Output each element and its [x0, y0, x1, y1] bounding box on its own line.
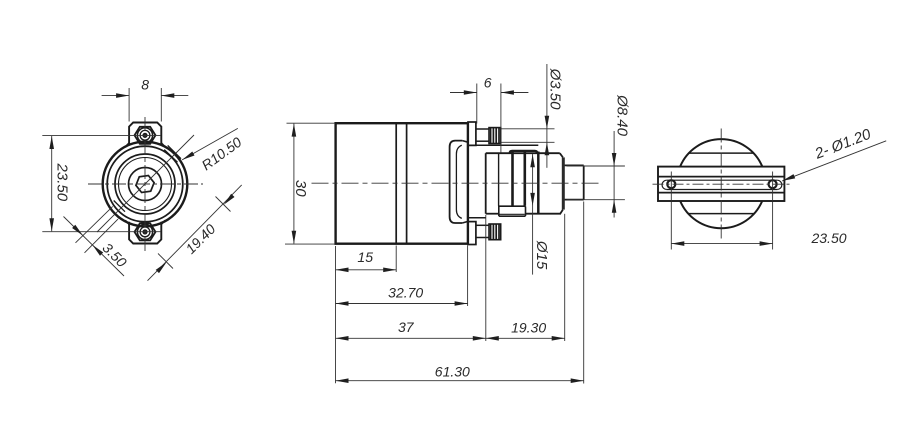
front view horizontal centerline [88, 183, 203, 185]
rear view housing circle (bottom arc) [680, 201, 762, 228]
svg-text:Ø8.40: Ø8.40 [614, 94, 631, 137]
svg-text:8: 8 [141, 76, 149, 92]
worm housing bottom edge [468, 217, 486, 219]
dimension Ø3.50 (terminal thread) [502, 64, 564, 168]
dimension 23.50 (hole spacing, front view) [42, 135, 161, 231]
svg-text:37: 37 [398, 319, 415, 335]
gearbox/end-cap boundary [537, 152, 540, 214]
rear view vertical centerline [720, 129, 722, 242]
bottom screw nut [135, 223, 156, 240]
rim flat marks upper-right [164, 145, 181, 162]
dimension 8 (tab width) [102, 76, 189, 121]
rear view top chord [689, 152, 754, 154]
rear view horizontal centerline [653, 183, 791, 185]
worm housing top edge [468, 144, 538, 146]
dimension 6 (terminal length) [450, 75, 528, 153]
dimension 30 (body height) [285, 123, 335, 244]
front view hub circle [129, 168, 162, 201]
motor body outline [336, 123, 468, 244]
output shaft [565, 165, 584, 199]
svg-text:19.30: 19.30 [511, 320, 546, 336]
svg-text:15: 15 [357, 249, 373, 265]
svg-text:32.70: 32.70 [388, 284, 423, 300]
gear channel and boss [499, 151, 537, 206]
svg-text:23.50: 23.50 [810, 230, 846, 246]
mounting slot [662, 180, 782, 189]
gearbox housing outline [486, 153, 561, 214]
end cap right edge [538, 153, 563, 214]
bottom mounting tab [125, 220, 165, 243]
top mounting tab [125, 123, 165, 147]
right screw hole [769, 172, 777, 201]
svg-text:Ø3.50: Ø3.50 [547, 68, 564, 111]
front view diagonal centerline [97, 135, 194, 232]
dimension Ø8.40 (shaft boss) [567, 94, 631, 217]
dimension 61.30 (overall length) [336, 202, 584, 384]
svg-text:Ø15: Ø15 [533, 240, 550, 270]
mounting bar inner edges [658, 177, 784, 193]
bottom mounting lug [499, 206, 526, 216]
radius callout R10.50 [182, 128, 245, 173]
svg-text:30: 30 [292, 180, 309, 197]
top screw nut [135, 127, 156, 144]
svg-text:61.30: 61.30 [435, 364, 470, 380]
dimension 37 [336, 215, 486, 341]
front view outer housing circle R10.50 [103, 142, 188, 227]
brush end cap (end bell) [450, 141, 468, 223]
dimension Ø15 (gearbox diameter) [530, 154, 550, 275]
front view vertical centerline [144, 117, 146, 251]
terminal stud top [468, 122, 501, 145]
rear view housing circle (top arc) [680, 139, 762, 166]
motor body seam lines [396, 123, 406, 244]
terminal stud bottom [468, 222, 501, 245]
rear view bottom chord [688, 213, 754, 215]
dimension 19.30 [486, 214, 565, 341]
dimension 3.50 [64, 206, 131, 276]
dimension 15 [336, 246, 397, 384]
rim flat marks lower-left [110, 201, 126, 219]
middle view axis centerline [312, 182, 602, 184]
front view face circle [115, 154, 175, 214]
mounting bar outline [658, 167, 784, 201]
dimension 32.70 [336, 246, 468, 307]
front view hex bore [136, 176, 154, 193]
hole callout 2-Ø1.20 [782, 126, 886, 181]
front view inner face circle [119, 158, 172, 211]
left screw hole [667, 172, 675, 201]
dimension 23.50 (rear hole spacing) [671, 202, 846, 250]
front view rim ring circle [107, 146, 183, 222]
svg-text:6: 6 [484, 75, 492, 91]
dimension 19.40 [148, 185, 242, 281]
svg-text:23.50: 23.50 [54, 163, 71, 202]
